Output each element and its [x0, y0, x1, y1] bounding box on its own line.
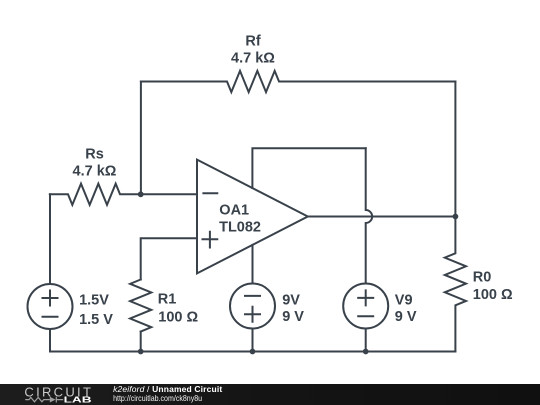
svg-text:4.7 kΩ: 4.7 kΩ — [231, 50, 275, 66]
svg-text:R1: R1 — [158, 291, 177, 307]
resistor R0 — [445, 217, 466, 352]
node V9 ground junction dot — [363, 349, 369, 355]
svg-text:LAB: LAB — [64, 395, 92, 404]
svg-text:100 Ω: 100 Ω — [473, 287, 513, 303]
wire node to op-amp inverting input — [141, 193, 197, 195]
svg-text:100 Ω: 100 Ω — [158, 310, 198, 326]
wire feedback left vertical — [140, 82, 142, 195]
svg-text:http://circuitlab.com/ck8ny8u: http://circuitlab.com/ck8ny8u — [113, 393, 202, 403]
svg-text:9 V: 9 V — [282, 309, 304, 325]
op-amp plus input symbol — [203, 232, 218, 248]
wire op-amp V+ power pin to top rail — [252, 148, 365, 188]
node R1 ground junction dot — [138, 349, 144, 355]
wire 9V source to ground rail — [252, 329, 254, 352]
svg-text:4.7 kΩ: 4.7 kΩ — [73, 163, 117, 179]
ground rail wire — [50, 351, 455, 353]
wire right vertical (Rf output to node) — [454, 82, 456, 217]
voltage source V1 1.5V circle — [28, 284, 73, 329]
voltage source 9V plus symbol — [245, 307, 260, 322]
logo diode triangle — [50, 397, 56, 403]
svg-text:TL082: TL082 — [219, 220, 261, 236]
voltage source V9 plus symbol — [358, 290, 373, 305]
voltage source V9 circle — [343, 284, 388, 329]
op-amp minus input symbol — [203, 192, 217, 194]
node inverting input junction dot — [138, 191, 144, 197]
voltage source V9 minus symbol — [358, 315, 373, 317]
logo squiggle wire with resistor and diode — [25, 397, 63, 403]
resistor Rf (with top feedback wire) — [141, 71, 456, 92]
wire op-amp output — [308, 216, 456, 218]
resistor R1 — [130, 280, 151, 332]
wire non-inverting input — [141, 238, 197, 279]
resistor Rs (with inverting input wire) — [50, 184, 141, 205]
node output junction dot — [453, 214, 459, 220]
svg-text:Rs: Rs — [85, 147, 104, 163]
wire V9 top with hop over output wire — [366, 148, 373, 283]
svg-text:9 V: 9 V — [395, 309, 417, 325]
svg-text:V9: V9 — [395, 292, 413, 308]
svg-text:OA1: OA1 — [219, 202, 249, 218]
voltage source V1 minus symbol — [43, 316, 58, 318]
svg-text:9V: 9V — [282, 292, 300, 308]
wire left branch down to 1.5V source — [49, 194, 51, 284]
voltage source 9V circle — [230, 284, 275, 329]
wire op-amp V- power pin to 9V source — [252, 245, 254, 284]
voltage source V1 plus symbol — [43, 291, 58, 306]
svg-text:Rf: Rf — [245, 34, 260, 50]
footer bar — [0, 384, 540, 405]
svg-text:R0: R0 — [473, 269, 492, 285]
wire 1.5V source to ground rail — [49, 329, 51, 352]
wire R1 to ground rail — [140, 332, 142, 352]
wire V9 source to ground rail — [365, 329, 367, 352]
voltage source 9V minus symbol — [245, 295, 260, 297]
op-amp OA1 triangle — [197, 160, 308, 274]
svg-text:1.5V: 1.5V — [79, 293, 109, 309]
node 9V ground junction dot — [250, 349, 256, 355]
svg-text:1.5 V: 1.5 V — [79, 312, 113, 328]
